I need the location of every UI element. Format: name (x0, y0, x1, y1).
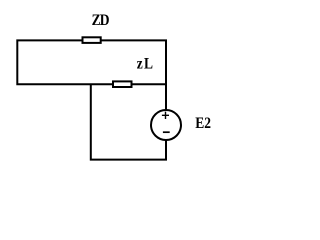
svg-text:E2: E2 (195, 115, 211, 132)
svg-text:ZD: ZD (92, 12, 110, 29)
svg-text:zL: zL (137, 56, 155, 73)
